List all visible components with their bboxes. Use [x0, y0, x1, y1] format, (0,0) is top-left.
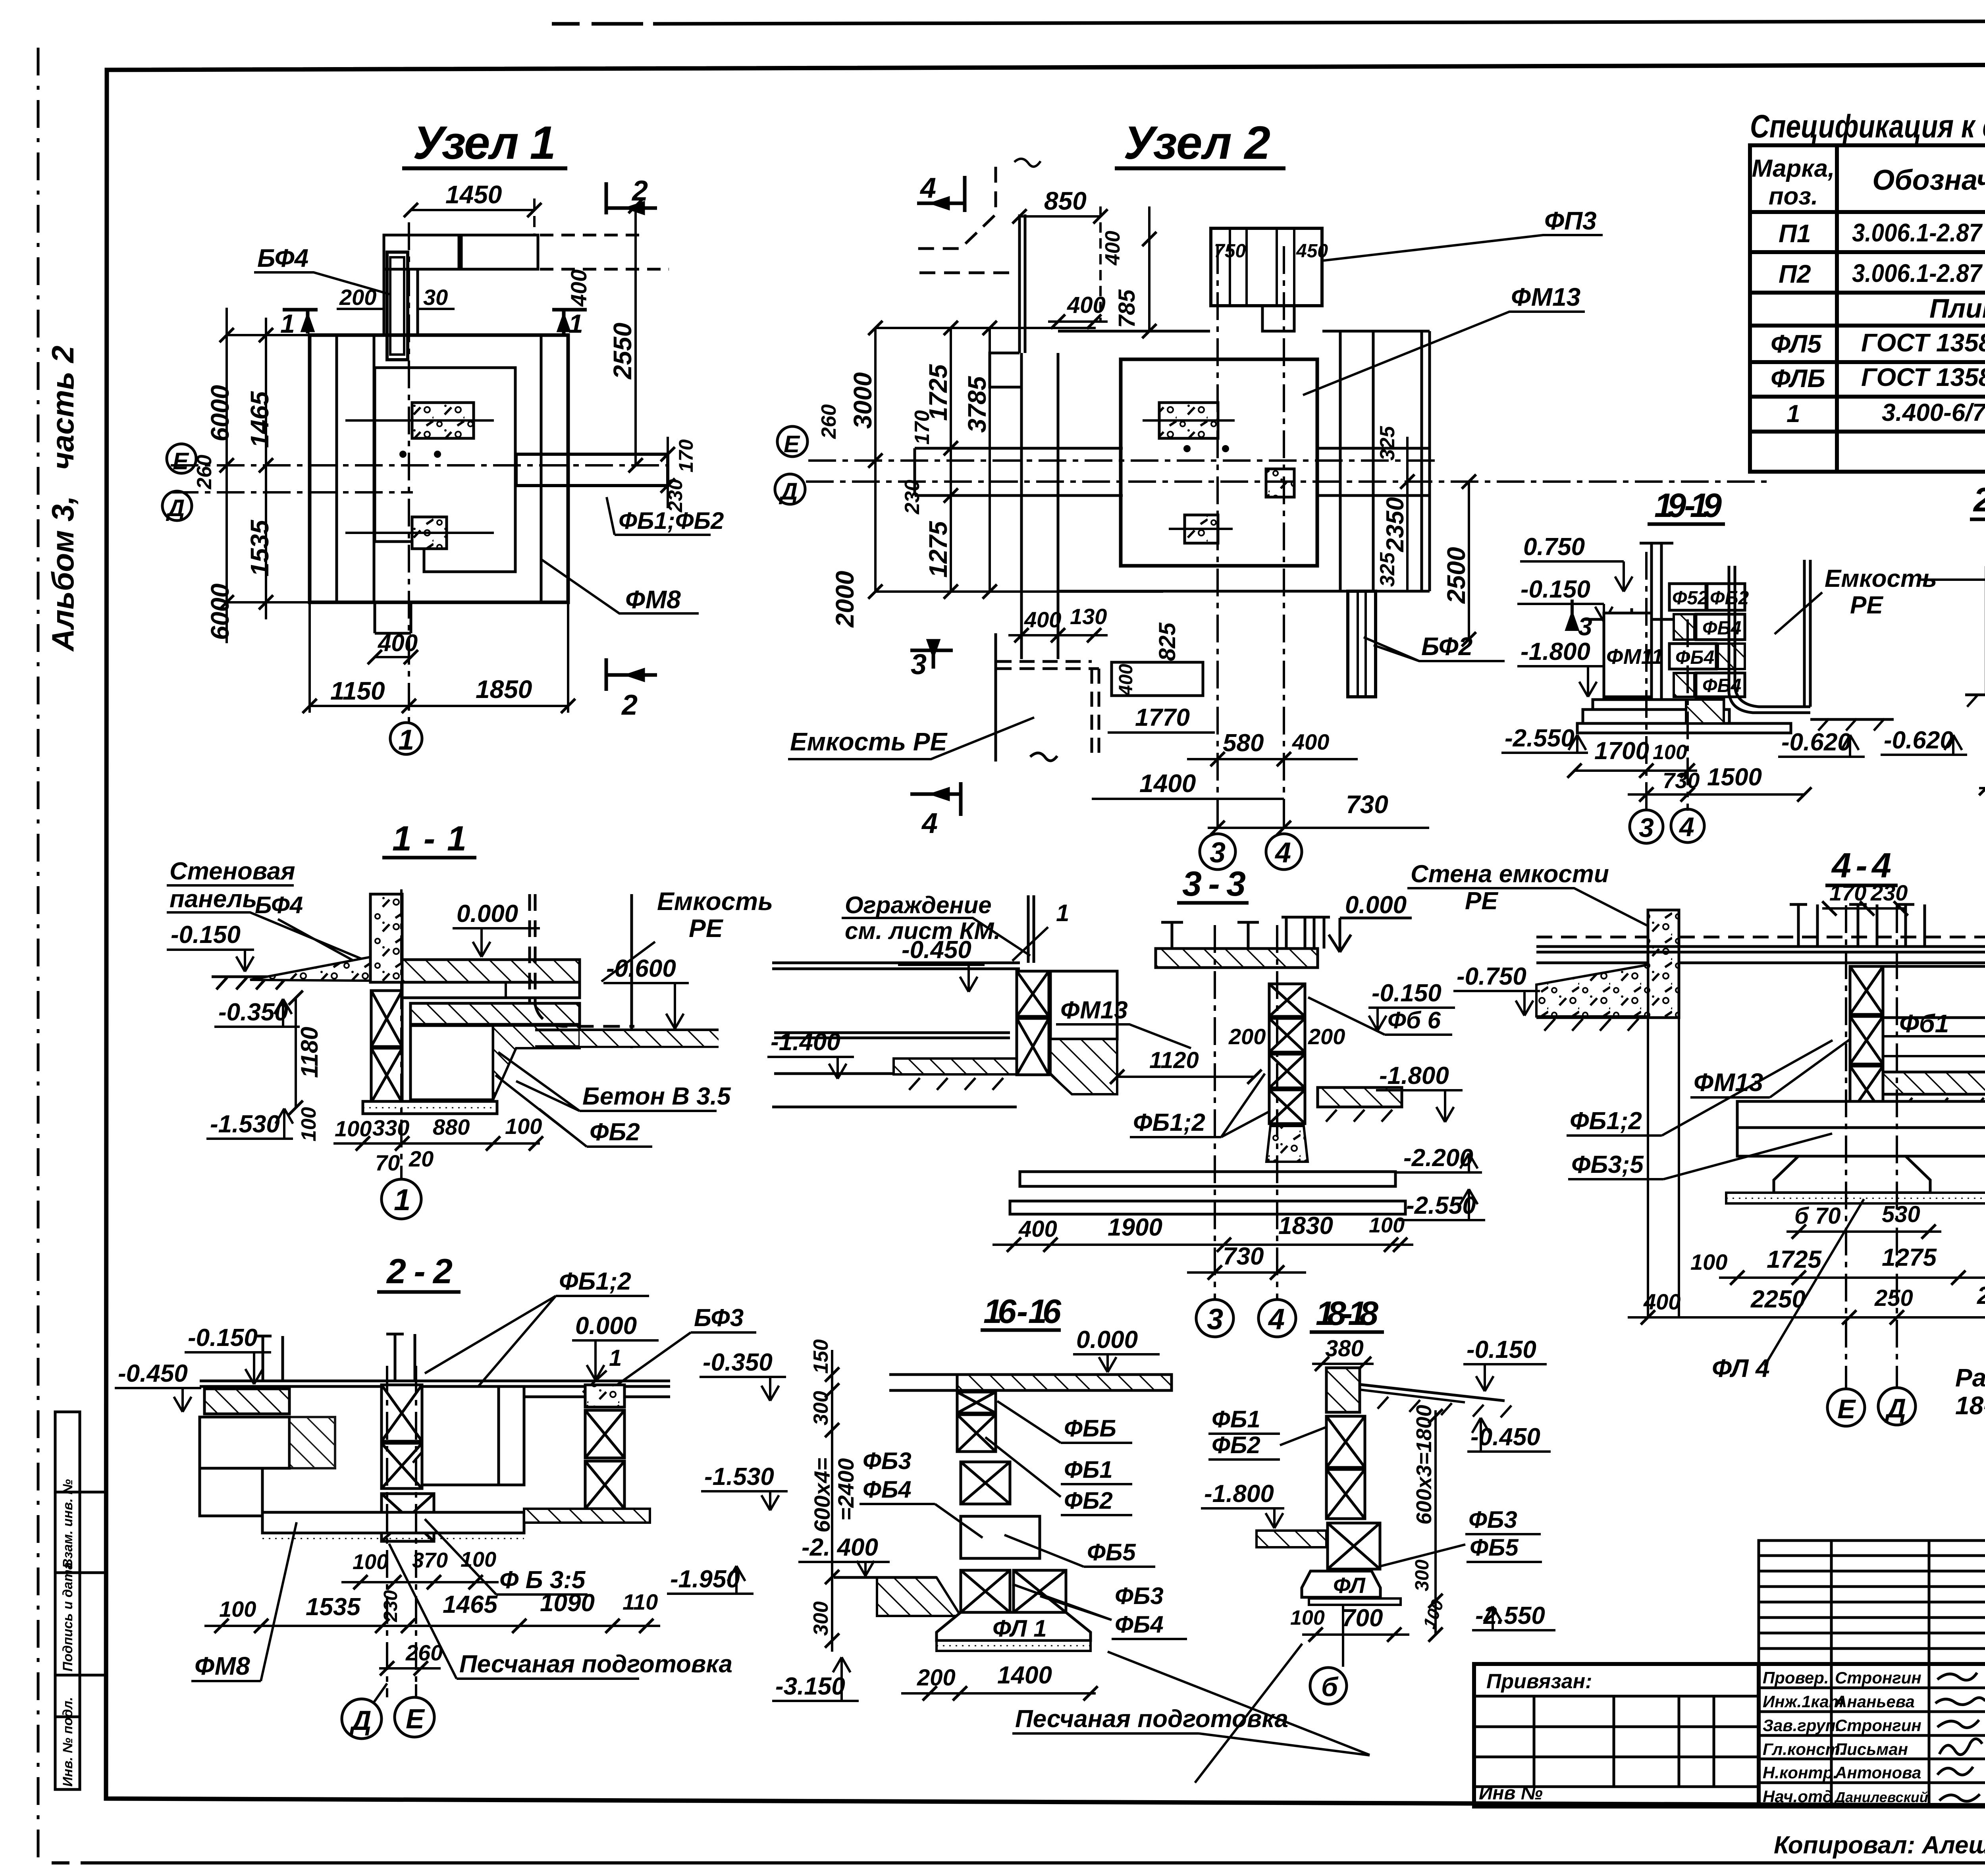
svg-text:100: 100 [1690, 1249, 1727, 1274]
svg-text:-1.800: -1.800 [1204, 1480, 1274, 1508]
svg-text:Гл.конст.: Гл.конст. [1763, 1740, 1844, 1758]
svg-text:3.006.1-2.87 Вып.1...4: 3.006.1-2.87 Вып.1...4 [1852, 259, 1985, 287]
сечение 16-16: left hatched wedge [877, 1577, 961, 1616]
svg-text:70: 70 [375, 1150, 400, 1175]
сечение 16-16: X block stack [957, 1392, 1010, 1504]
узел 1: section mark 2 bottom [606, 658, 657, 691]
svg-text:200: 200 [1228, 1024, 1266, 1049]
svg-text:3.006.1-2.87 Вып.1...4: 3.006.1-2.87 Вып.1...4 [1852, 218, 1985, 247]
upper wall double line [1018, 214, 1021, 353]
svg-text:ФМ13: ФМ13 [1060, 997, 1128, 1024]
узел 1: plan drawing [310, 235, 669, 633]
сечение 2-2: center X column [382, 1385, 434, 1541]
узел 2: dim 850 [1012, 206, 1108, 322]
svg-text:Стронгин: Стронгин [1835, 1716, 1921, 1735]
узел 1: axis circle Д [162, 491, 192, 521]
svg-text:18-18; 19-19; 20-20 см. лис: 18-18; 19-19; 20-20 см. лист 4. [1955, 1391, 1985, 1420]
сечение 1-1: axis line and circle 1 [400, 889, 403, 1178]
title block: signature name texts [1834, 1668, 1928, 1805]
узел 2: axis circle 4 [1266, 834, 1302, 870]
svg-text:Инв №: Инв № [1479, 1783, 1543, 1804]
svg-text:300: 300 [809, 1391, 833, 1425]
svg-text:панель: панель [170, 885, 257, 913]
svg-text:ФБ1;2: ФБ1;2 [559, 1268, 631, 1295]
svg-text:-0.350: -0.350 [703, 1349, 773, 1376]
сечение 3-3: mid hatched band [894, 1059, 1017, 1074]
svg-text:2500: 2500 [1442, 547, 1470, 604]
svg-text:450: 450 [1296, 241, 1328, 262]
outer left dash-dot border line [37, 48, 40, 1866]
сечение 2-2: second hatched patch [289, 1417, 335, 1468]
сечение 2-2: right X boxes [585, 1410, 624, 1509]
сечение 1-1: sand bed [363, 1101, 497, 1114]
узел 1: dim 1450 [404, 199, 542, 235]
svg-text:4 - 4: 4 - 4 [1831, 846, 1891, 885]
svg-text:400: 400 [1101, 231, 1124, 266]
svg-text:Стронгин: Стронгин [1835, 1668, 1921, 1687]
svg-text:ФБ1;2: ФБ1;2 [1133, 1109, 1205, 1136]
svg-text:3: 3 [1639, 813, 1654, 843]
сечение 3-3: bottom dims [992, 1238, 1413, 1252]
сечение 19-19: wall double line [1640, 543, 1673, 700]
svg-text:1465: 1465 [443, 1591, 498, 1618]
сечение 4-4: X column [1832, 966, 1883, 1155]
сечение 19-19: section mark 3 left [1567, 600, 1577, 629]
svg-text:РЕ: РЕ [689, 914, 724, 943]
узел 2: bottom dim line horizontal [875, 590, 1163, 593]
svg-text:1535: 1535 [306, 1593, 361, 1621]
сечение 18-18: sloped ground with hatch [1360, 1384, 1505, 1401]
сечение 19-19: axis circles 3 4 [1645, 552, 1648, 812]
svg-text:ФБ5: ФБ5 [1470, 1534, 1519, 1561]
svg-text:Ананьева: Ананьева [1835, 1692, 1915, 1711]
сечение 19-19: top tie line [1584, 608, 1679, 630]
svg-text:1: 1 [1056, 900, 1069, 926]
сечение 16-16: footing ФЛ1 [937, 1612, 1091, 1641]
узел 1: vertical axis line 1 [408, 222, 410, 723]
svg-text:ФБ1: ФБ1 [1064, 1456, 1113, 1483]
сечение 18-18: leader to песчаная [1195, 1644, 1302, 1783]
сечение 2-2: right speckle box [585, 1385, 624, 1407]
svg-text:1830: 1830 [1278, 1212, 1333, 1240]
svg-text:100: 100 [1369, 1213, 1405, 1237]
сечение 2-2: left white blocks [200, 1417, 289, 1468]
svg-text:250: 250 [1874, 1285, 1913, 1311]
svg-text:Д: Д [779, 478, 798, 505]
title block: signature rows grid [1759, 1664, 1985, 1807]
svg-text:3: 3 [1207, 1303, 1223, 1336]
узел 2: top right dim line vertical [1142, 206, 1156, 338]
svg-text:-0.620: -0.620 [1781, 729, 1851, 756]
сечение 20-20: ground hatch left [1965, 695, 1985, 707]
svg-text:-2.200: -2.200 [1403, 1144, 1473, 1172]
svg-text:ФБ4: ФБ4 [1675, 647, 1714, 668]
svg-text:260: 260 [817, 404, 840, 439]
сечение 18-18: X boxes [1326, 1416, 1380, 1569]
svg-text:1150: 1150 [330, 677, 385, 705]
specification table grid [1750, 145, 1985, 472]
сечение 3-3: bottom slabs [1020, 1172, 1395, 1186]
svg-text:-0.150: -0.150 [1521, 576, 1590, 603]
сечение 16-16: ФБ5 white block [961, 1516, 1040, 1558]
сечение 1-1: sloped footing wedge [250, 957, 371, 981]
сечение 19-19: row ФБ4 (1) [1674, 614, 1694, 640]
svg-text:ФБ2: ФБ2 [1064, 1487, 1113, 1514]
сечение 3-3: top right slab with rebar pins [1156, 949, 1318, 968]
svg-text:-0.450: -0.450 [902, 936, 971, 964]
svg-text:2 - 2: 2 - 2 [386, 1251, 453, 1291]
сечение 1-1: slab at -0.600 right [535, 1030, 719, 1047]
узел 1: title [402, 117, 567, 169]
svg-text:2: 2 [621, 689, 638, 721]
svg-text:ГОСТ 13580-85: ГОСТ 13580-85 [1861, 328, 1985, 357]
svg-text:б: б [1321, 1672, 1339, 1702]
svg-text:ФЛ 4: ФЛ 4 [1712, 1354, 1770, 1382]
сечение 18-18: bottom slab [1309, 1598, 1401, 1605]
сечение 3-3: left X column [1017, 971, 1049, 1075]
svg-text:Н.контр.: Н.контр. [1763, 1763, 1838, 1782]
svg-text:730: 730 [1223, 1243, 1264, 1270]
svg-text:230: 230 [380, 1590, 401, 1622]
сечение 19-19: row ФБ4 (2) [1669, 644, 1716, 669]
сечение 3-3: top slab lines [772, 963, 1020, 1107]
svg-text:100: 100 [1653, 741, 1687, 764]
узел 2: axis 4 vertical dash-dot [1283, 246, 1285, 832]
svg-text:1: 1 [1786, 400, 1800, 428]
узел 2: section mark 3 [910, 639, 953, 669]
сечение 2-2: right big block [422, 1386, 499, 1485]
svg-text:600х3=1800: 600х3=1800 [1412, 1405, 1436, 1525]
svg-text:Стена емкости: Стена емкости [1411, 860, 1609, 888]
узел 1: beam right end dims 170 230 [661, 437, 675, 508]
svg-text:230: 230 [1870, 880, 1908, 905]
узел 2: axis Е dash-dot [808, 459, 1437, 462]
svg-text:400: 400 [1024, 607, 1061, 632]
svg-text:1090: 1090 [540, 1589, 595, 1617]
svg-text:20 - 20: 20 - 20 [1973, 481, 1985, 519]
узел 2: axis circle 3 [1200, 834, 1235, 870]
svg-text:1 - 1: 1 - 1 [392, 819, 466, 858]
svg-text:ФМ13: ФМ13 [1694, 1068, 1763, 1097]
сечение 4-4: right lines [1883, 947, 1985, 1094]
svg-text:0.000: 0.000 [457, 900, 518, 927]
svg-text:Марка,: Марка, [1752, 155, 1835, 182]
svg-text:Емкость: Емкость [657, 887, 773, 916]
сечение 3-3: ground hatch below band [909, 1078, 1003, 1090]
svg-text:230: 230 [901, 480, 924, 515]
svg-text:30: 30 [423, 285, 448, 310]
svg-text:ГОСТ 13580-85: ГОСТ 13580-85 [1861, 363, 1985, 391]
svg-text:Антонова: Антонова [1835, 1763, 1921, 1782]
svg-text:-0.600: -0.600 [606, 955, 676, 982]
svg-text:3785: 3785 [963, 376, 991, 433]
svg-text:150: 150 [809, 1339, 833, 1374]
сечение 3-3: hatched wedge below ФМ13 [1050, 1039, 1117, 1094]
wall corner step [990, 353, 1021, 387]
узел 2: tear mark top [1014, 159, 1041, 167]
сечение 4-4: right hatched strip [1883, 1072, 1985, 1094]
svg-text:Инж.1кат: Инж.1кат [1763, 1692, 1844, 1711]
svg-text:Е: Е [784, 431, 800, 457]
узел 2: axis Д dash-dot [806, 480, 1771, 483]
svg-text:1275: 1275 [924, 521, 952, 578]
svg-text:2500: 2500 [1977, 1282, 1985, 1309]
svg-text:400: 400 [566, 270, 591, 307]
узел 2: top dim line horizontal [875, 327, 1096, 329]
svg-text:-2.550: -2.550 [1505, 725, 1575, 752]
svg-text:П2: П2 [1779, 260, 1811, 288]
сечение 16-16: top slab [957, 1375, 1172, 1390]
table row ФЛ5 [1771, 327, 1985, 358]
svg-text:Узел 2: Узел 2 [1124, 117, 1270, 169]
svg-text:19 -19: 19 -19 [1654, 487, 1722, 524]
svg-text:Обозначение: Обозначение [1872, 164, 1985, 196]
svg-text:-1.400: -1.400 [771, 1028, 840, 1056]
svg-text:ФБ4: ФБ4 [1115, 1611, 1164, 1638]
svg-text:100: 100 [219, 1596, 256, 1621]
сечение 1-1: tank dashed wall [530, 894, 634, 1026]
svg-text:370: 370 [412, 1548, 448, 1572]
svg-text:ФБ1: ФБ1 [1212, 1406, 1260, 1433]
svg-text:1500: 1500 [1707, 764, 1762, 791]
svg-text:Нач.отд: Нач.отд [1763, 1787, 1833, 1806]
svg-text:=2400: =2400 [833, 1458, 858, 1521]
сечение 1-1: hatched wedge [493, 1026, 580, 1100]
сечение 2-2: top slab lines [200, 1381, 670, 1386]
сечение 19-19: hatched wedge right of base [1686, 700, 1724, 723]
сечение 18-18: footing ФЛ [1302, 1571, 1380, 1597]
узел 2: dim 2500 rotated right [1462, 474, 1476, 646]
svg-text:Письман: Письман [1835, 1740, 1908, 1758]
svg-text:0.750: 0.750 [1523, 533, 1585, 561]
svg-text:750: 750 [1214, 241, 1246, 262]
svg-text:170: 170 [911, 410, 934, 445]
svg-text:1850: 1850 [476, 675, 532, 704]
svg-text:4: 4 [1679, 812, 1694, 842]
plan bottom outline [1058, 590, 1348, 593]
сечение 16-16: sand bed [937, 1641, 1091, 1651]
svg-text:ФБ3;5: ФБ3;5 [1571, 1151, 1644, 1178]
svg-text:-1.530: -1.530 [704, 1463, 774, 1490]
svg-text:0.000: 0.000 [1076, 1326, 1138, 1353]
beam band on axis Е [915, 448, 1123, 496]
сечение 2-2: rebar pins [254, 1334, 415, 1381]
svg-text:Привязан:: Привязан: [1486, 1670, 1592, 1693]
сечение 4-4: axis circles Е Д [1845, 905, 1847, 1388]
сечение 1-1: beam row under slab [402, 982, 580, 998]
svg-text:Фб 6: Фб 6 [1388, 1007, 1441, 1033]
svg-text:260: 260 [193, 455, 216, 490]
svg-text:1: 1 [569, 309, 583, 338]
узел 2: axis circle Е [777, 426, 807, 457]
svg-text:Взам. инв. №: Взам. инв. № [60, 1479, 75, 1568]
узел 1: concrete patch upper [412, 403, 474, 438]
svg-text:ФЛ5: ФЛ5 [1771, 330, 1822, 358]
узел 1: dim 2550 rotated [628, 199, 643, 472]
svg-text:580: 580 [1223, 729, 1264, 757]
сечение 4-4: tank wall concrete strip [1648, 910, 1679, 1018]
svg-text:3 - 3: 3 - 3 [1182, 864, 1246, 903]
узел 2: left dim column 3000/2000 [868, 321, 883, 599]
узел 2: white block 400 [1112, 662, 1203, 696]
узел 2: dim column 3785 [983, 321, 997, 599]
svg-text:4: 4 [921, 808, 938, 839]
svg-text:6000: 6000 [206, 584, 234, 640]
узел 2: section mark 4 bottom [910, 782, 961, 816]
wall band verticals [1020, 353, 1023, 659]
svg-text:Песчаная подготовка: Песчаная подготовка [459, 1650, 732, 1678]
title block: signature squiggles [1935, 1673, 1985, 1801]
svg-text:200: 200 [1308, 1024, 1345, 1049]
svg-text:Д: Д [1885, 1393, 1906, 1423]
table row ФЛБ [1771, 362, 1985, 393]
узел 1: section mark 1 left [283, 310, 318, 334]
svg-text:1: 1 [280, 309, 295, 338]
svg-text:2: 2 [631, 175, 648, 207]
svg-text:1400: 1400 [997, 1662, 1052, 1689]
сечение 1-1: bottom dims [333, 1136, 543, 1151]
svg-text:530: 530 [1882, 1201, 1920, 1227]
svg-text:Е: Е [173, 448, 189, 474]
узел 2: axis 3 vertical dash-dot [1216, 246, 1219, 832]
узел 2: axis circle Д [775, 474, 805, 504]
svg-text:Д: Д [349, 1705, 372, 1736]
outer top border line [552, 20, 1985, 24]
сечение 1-1: slab -0.600 hatched [410, 1003, 580, 1024]
svg-text:Спецификация к схеме располо: Спецификация к схеме расположения плит и… [1750, 108, 1985, 145]
svg-text:4: 4 [1274, 837, 1291, 869]
сечение 3-3: right X column [1269, 984, 1305, 1124]
узел 1: axis circle 1 [390, 723, 422, 754]
svg-text:1725: 1725 [1767, 1246, 1822, 1273]
узел 2: dim 2350 rotated right [1400, 437, 1415, 592]
svg-text:100: 100 [297, 1107, 320, 1141]
svg-text:ФЛ 1: ФЛ 1 [992, 1615, 1047, 1642]
узел 1: section mark 2 top [606, 182, 657, 214]
svg-text:ФБ2: ФБ2 [590, 1118, 640, 1146]
svg-text:400: 400 [1018, 1216, 1057, 1242]
сечение 18-18: left slab [1257, 1531, 1326, 1547]
svg-text:ФББ: ФББ [1064, 1415, 1116, 1442]
узел 1: anchor dots [399, 451, 407, 458]
svg-text:б 70: б 70 [1794, 1203, 1841, 1229]
svg-text:300: 300 [809, 1601, 833, 1636]
svg-text:ФБ2: ФБ2 [1212, 1432, 1260, 1458]
svg-text:700: 700 [1342, 1604, 1383, 1632]
svg-text:850: 850 [1044, 187, 1087, 215]
узел 2: section mark 4 top [917, 176, 965, 212]
сечение 19-19: ground hatch right [1810, 719, 1894, 731]
svg-text:-2. 400: -2. 400 [802, 1534, 878, 1561]
svg-text:2350: 2350 [1382, 497, 1409, 552]
svg-text:-0.620: -0.620 [1884, 727, 1954, 754]
сечение 3-3: fence post [1028, 895, 1034, 963]
svg-text:4: 4 [1268, 1303, 1285, 1336]
узел 2: concrete patch A [1159, 403, 1218, 438]
svg-text:325: 325 [1376, 426, 1399, 461]
сечение 1-1: block X column [371, 991, 402, 1103]
svg-text:Провер.: Провер. [1763, 1668, 1829, 1687]
сечение 3-3: concrete pad under column [1266, 1126, 1308, 1162]
сечение 2-2: left hatched slab [204, 1389, 289, 1414]
svg-text:1180: 1180 [296, 1027, 323, 1078]
сечение 2-2: right slab band [524, 1396, 585, 1398]
svg-text:3: 3 [1578, 612, 1592, 641]
svg-text:100: 100 [461, 1548, 496, 1571]
svg-text:Бетон В 3.5: Бетон В 3.5 [582, 1083, 731, 1110]
svg-text:П1: П1 [1779, 219, 1811, 248]
svg-text:1465: 1465 [245, 391, 274, 448]
сечение 1-1: floor slab hatched [402, 960, 580, 982]
узел 1: left dim line 1465/1535 [227, 318, 310, 619]
svg-text:785: 785 [1114, 289, 1140, 328]
svg-text:Ограждение: Ограждение [845, 892, 992, 918]
svg-text:-1.800: -1.800 [1521, 638, 1590, 665]
svg-text:ФБ4: ФБ4 [863, 1476, 912, 1503]
svg-text:1: 1 [609, 1345, 622, 1371]
сечение 2-2: axis lines and circles Д Е [386, 1366, 388, 1697]
svg-text:1275: 1275 [1882, 1244, 1937, 1271]
сечение 18-18: axis circle Б [1342, 1605, 1344, 1667]
svg-text:20: 20 [409, 1146, 434, 1171]
сечение 19-19: блок row ФБ2 ФБ2 [1669, 584, 1745, 610]
узел 2: dashed break outline top left [917, 167, 1016, 273]
svg-text:1535: 1535 [245, 519, 274, 576]
узел 1: concrete patch lower [412, 517, 447, 549]
svg-text:Копировал: Алешикова: Копировал: Алешикова [1774, 1832, 1985, 1859]
узел 2: concrete patch B [1185, 515, 1218, 543]
svg-text:-1.800: -1.800 [1379, 1062, 1449, 1089]
сечение 4-4: rebar pins on slab [1790, 904, 1925, 947]
svg-text:6000: 6000 [206, 385, 234, 442]
сечение 2-2: right lower slab [524, 1509, 650, 1523]
svg-text:ФБ1;2: ФБ1;2 [1570, 1107, 1642, 1135]
сечение 3-3: ФМ13 block [1050, 971, 1117, 1039]
svg-text:2000: 2000 [831, 571, 859, 628]
svg-text:100: 100 [353, 1550, 388, 1574]
svg-text:260: 260 [405, 1640, 443, 1665]
plan top outline [1058, 330, 1210, 333]
svg-text:ФП3: ФП3 [1544, 206, 1597, 235]
right band verticals [1339, 331, 1342, 591]
svg-text:-3.150: -3.150 [775, 1673, 845, 1700]
svg-text:4: 4 [919, 172, 936, 204]
svg-text:330: 330 [372, 1115, 409, 1140]
table header texts [1752, 154, 1985, 210]
svg-text:170: 170 [675, 439, 697, 472]
svg-text:-1.530: -1.530 [210, 1111, 280, 1138]
сечение 16-16: bottom X boxes [961, 1570, 1066, 1612]
сечение 1-1: ground line and hatch [212, 977, 373, 989]
svg-text:1700: 1700 [1594, 737, 1649, 765]
svg-text:16 - 16: 16 - 16 [983, 1293, 1062, 1330]
svg-text:-0.450: -0.450 [118, 1360, 188, 1387]
title block: main outline [1474, 1541, 1985, 1807]
svg-text:400: 400 [1116, 664, 1137, 696]
сечение 3-3: axis circles 3 4 [1214, 925, 1216, 1298]
title block: revision mini table [1759, 1541, 1985, 1664]
svg-text:300: 300 [1412, 1560, 1433, 1591]
узел 2: plan drawing main lines [915, 214, 1430, 697]
сечение 4-4: footing trapezoid ФЛ4 [1774, 1156, 1930, 1193]
сечение 4-4: sand bed [1726, 1193, 1985, 1203]
central slab rectangle [1121, 359, 1317, 566]
svg-text:Ф52: Ф52 [1672, 588, 1708, 609]
узел 1: bottom dim 1150 1850 [303, 602, 575, 713]
svg-text:ФБ3: ФБ3 [1469, 1506, 1517, 1533]
узел 1: axis Е line [171, 464, 668, 467]
узел 1: bottom dim 400 [368, 650, 418, 664]
